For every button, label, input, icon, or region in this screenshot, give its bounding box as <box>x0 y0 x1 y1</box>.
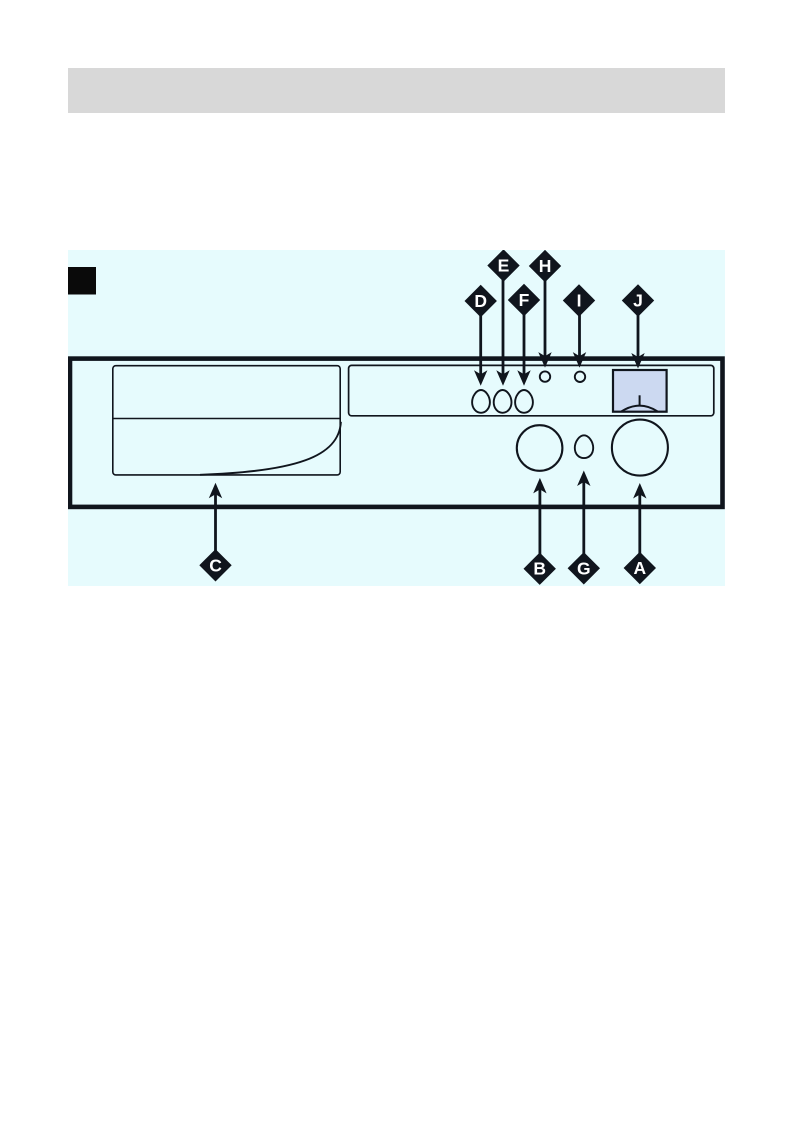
svg-text:I: I <box>577 291 582 311</box>
svg-text:G: G <box>577 558 591 578</box>
diamond label J <box>622 284 654 316</box>
arrow H <box>538 275 551 368</box>
arrow J <box>631 310 644 369</box>
button F (egg) <box>515 390 533 413</box>
diamond label C <box>199 549 231 581</box>
arrow B <box>533 478 546 559</box>
arrow G <box>577 471 590 560</box>
detergent drawer C <box>113 366 340 475</box>
button G (small egg) <box>575 435 593 458</box>
svg-text:E: E <box>498 256 510 276</box>
diamond label D <box>465 285 497 317</box>
svg-text:B: B <box>533 559 546 579</box>
arrow D <box>474 310 487 386</box>
diamond label B <box>524 553 556 585</box>
diamond label H <box>529 250 561 282</box>
svg-text:C: C <box>209 555 222 575</box>
drawer curl curve <box>200 422 341 475</box>
button D (egg) <box>472 390 490 413</box>
cyan figure background <box>68 250 725 586</box>
knob A <box>612 420 668 476</box>
display dial pointer <box>639 395 641 406</box>
drawer divider line <box>113 418 340 420</box>
svg-text:H: H <box>539 256 552 276</box>
svg-text:D: D <box>474 291 487 311</box>
indicator light I <box>575 372 585 382</box>
display dial arc <box>621 406 657 412</box>
control panel outline <box>70 359 723 507</box>
arrow I <box>573 310 586 368</box>
black chapter square <box>68 267 96 295</box>
knob B <box>517 425 563 471</box>
arrow E <box>496 275 509 386</box>
right control section <box>349 365 714 415</box>
indicator light H <box>540 371 550 381</box>
arrow A <box>633 483 646 559</box>
diamond label I <box>563 284 595 316</box>
svg-text:J: J <box>633 291 643 311</box>
arrow C <box>209 483 222 556</box>
svg-text:A: A <box>633 558 646 578</box>
display window J <box>613 370 667 412</box>
arrow F <box>517 310 530 386</box>
button E (egg) <box>494 390 512 413</box>
svg-text:F: F <box>519 290 530 310</box>
diamond label G <box>568 552 600 584</box>
gray header banner <box>68 68 725 113</box>
diamond label A <box>624 552 656 584</box>
figure: washing machine control panel diagram <box>68 250 725 586</box>
diamond label F <box>508 284 540 316</box>
diamond label E <box>487 249 519 281</box>
